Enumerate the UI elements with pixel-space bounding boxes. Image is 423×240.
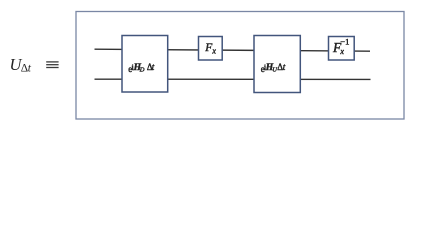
gate U4 F_x^-1 [329,36,355,60]
gate U2 F_x [199,37,223,61]
wire q1 [95,78,371,80]
svg-text:x: x [211,46,216,55]
outer frame [76,12,404,120]
node label U_dt [10,55,32,75]
svg-text:x: x [339,47,344,56]
gate U3 e^{iH_U dt} [254,36,300,93]
equivalence sign [46,62,58,68]
svg-text:D: D [139,66,145,73]
svg-text:−1: −1 [340,36,349,46]
wire q0 [95,49,371,51]
svg-text:t: t [28,63,32,75]
gate U1 e^{iH_D dt} [122,36,168,93]
